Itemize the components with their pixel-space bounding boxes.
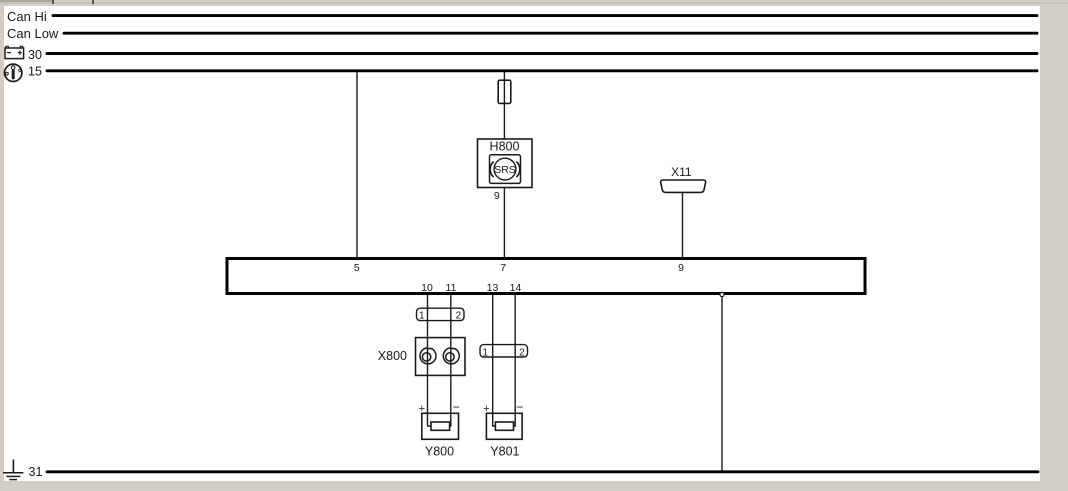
pin label 9 (H800) <box>494 190 500 202</box>
wire pin14 to Y801 - <box>514 295 516 426</box>
pin number 10 <box>421 282 433 294</box>
svg-text:Y800: Y800 <box>425 444 454 458</box>
X800 socket terminal right <box>443 348 459 364</box>
pin number 11 <box>446 282 457 294</box>
svg-text:X800: X800 <box>378 349 407 363</box>
control unit box <box>227 259 865 294</box>
wire pin10 to Y800 + <box>428 295 432 426</box>
connector X800 box <box>416 338 466 376</box>
pin number 13 <box>487 282 499 294</box>
svg-text:1: 1 <box>419 310 425 321</box>
svg-text:Can Low: Can Low <box>7 26 59 41</box>
svg-text:31: 31 <box>29 465 43 479</box>
svg-text:Can Hi: Can Hi <box>7 9 47 24</box>
bus line 31 <box>47 470 1038 473</box>
label 31 <box>29 465 43 479</box>
svg-text:7: 7 <box>500 262 506 274</box>
svg-text:−: − <box>453 400 460 414</box>
toolbar tick marks (cut-off UI at top) <box>0 0 52 2</box>
label X11 <box>671 165 692 179</box>
bus line 15 <box>47 69 1037 72</box>
svg-text:SRS: SRS <box>494 164 516 176</box>
svg-text:−: − <box>516 400 523 414</box>
label Can Hi <box>7 9 47 24</box>
wire ground from control unit to bus 31 <box>721 295 723 471</box>
connector X11 <box>661 180 706 192</box>
ignition switch icon (terminal 15) <box>5 64 22 81</box>
pin number 14 <box>510 282 522 294</box>
junction node on control unit bottom <box>720 292 724 296</box>
svg-text:10: 10 <box>421 282 433 294</box>
svg-text:30: 30 <box>28 48 42 62</box>
wire pin11 to Y800 - <box>450 295 451 426</box>
svg-text:5: 5 <box>354 262 360 274</box>
wire from bus 15 through fuse to H800 <box>503 72 505 139</box>
svg-text:2: 2 <box>519 347 525 358</box>
fuse F <box>498 80 511 103</box>
bus line Can Hi <box>53 14 1037 17</box>
svg-text:11: 11 <box>446 282 457 294</box>
label X800 <box>378 349 407 363</box>
pin number 5 <box>354 262 360 274</box>
svg-text:Y801: Y801 <box>490 444 519 458</box>
svg-text:X11: X11 <box>671 165 692 179</box>
airbag warning lamp H800 <box>478 139 533 188</box>
pin number 9 <box>678 262 684 274</box>
wire H800 to control unit pin 7 <box>503 188 505 258</box>
svg-text:9: 9 <box>494 190 500 202</box>
actuator Y800 <box>419 400 460 439</box>
label 15 <box>28 65 42 79</box>
svg-text:2: 2 <box>456 310 462 321</box>
label Can Low <box>7 26 59 41</box>
label Y800 <box>425 444 454 458</box>
actuator Y801 <box>483 400 523 439</box>
bus line Can Low <box>64 32 1037 35</box>
label 30 <box>28 48 42 62</box>
svg-text:15: 15 <box>28 65 42 79</box>
ground symbol (terminal 31) <box>3 460 23 480</box>
inline connector strip (pins 1,2) above Y801 <box>480 345 528 359</box>
pin number 7 <box>500 262 506 274</box>
bus line 30 <box>47 52 1037 55</box>
X800 socket terminal left <box>420 348 436 364</box>
svg-text:1: 1 <box>483 347 489 358</box>
label Y801 <box>490 444 519 458</box>
svg-text:13: 13 <box>487 282 499 294</box>
wire X11 to control unit pin 9 <box>682 192 684 257</box>
inline connector strip (pins 1,2) above X800 <box>417 308 465 321</box>
svg-text:H800: H800 <box>490 140 520 154</box>
wire pin13 to Y801 + <box>493 295 496 426</box>
wire pin5 from bus 15 to control unit <box>356 72 358 257</box>
battery icon (terminal 30) <box>5 46 24 58</box>
svg-text:9: 9 <box>678 262 684 274</box>
svg-text:14: 14 <box>510 282 522 294</box>
